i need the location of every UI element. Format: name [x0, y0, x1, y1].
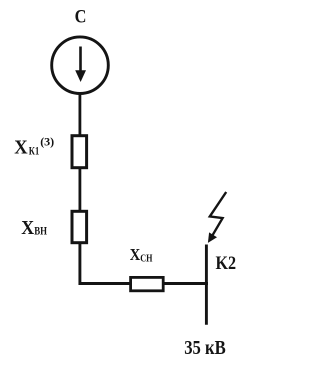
- short-circuit arrow K2 (lightning bolt): [208, 192, 226, 243]
- svg-text:ВН: ВН: [34, 226, 47, 238]
- wire: XK1 to XVN: [79, 168, 82, 211]
- wire: XVN down then right to XSN: [80, 243, 130, 284]
- reactance XVN: [72, 211, 87, 242]
- wire: 35 kV feeder vertical line: [205, 245, 208, 325]
- svg-text:Х: Х: [130, 245, 141, 264]
- value label XK1(3): [14, 134, 54, 158]
- svg-text:(3): (3): [40, 134, 54, 148]
- value label XSN: [130, 245, 153, 265]
- reactance XSN: [131, 277, 164, 290]
- svg-text:K2: K2: [216, 253, 237, 274]
- svg-text:К1: К1: [29, 146, 40, 158]
- svg-text:Х: Х: [14, 136, 28, 158]
- source C (system equivalent source: circle with down arrow): [52, 37, 109, 94]
- reactance XK1(3): [72, 136, 87, 168]
- wire: XSN to 35 kV feeder: [164, 282, 208, 285]
- svg-text:СН: СН: [140, 253, 153, 265]
- svg-text:35 кВ: 35 кВ: [184, 338, 226, 359]
- wire: source to XK1: [79, 94, 82, 137]
- value label XVN: [21, 217, 47, 239]
- svg-text:Х: Х: [21, 217, 34, 239]
- svg-text:C: C: [75, 6, 87, 27]
